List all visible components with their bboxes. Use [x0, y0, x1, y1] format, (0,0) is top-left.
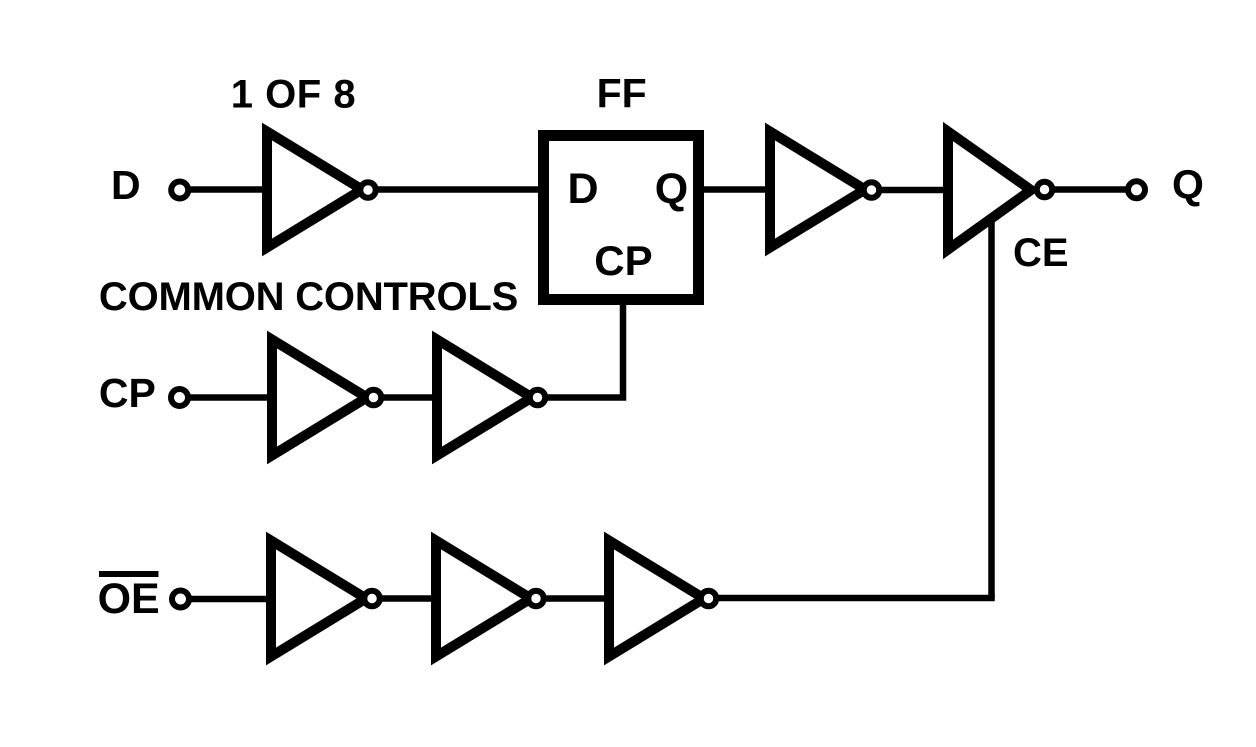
bubble at U4 output — [366, 390, 382, 406]
svg-text:COMMON CONTROLS: COMMON CONTROLS — [99, 275, 518, 319]
wire buffer U4 output to buffer U5 — [374, 394, 443, 401]
wire buffer U1 output to FF D pin — [368, 186, 546, 193]
wire U3 output to Q terminal — [1053, 186, 1128, 193]
wire buffer U7 output to buffer U8 — [536, 595, 614, 602]
svg-text:Q: Q — [655, 165, 688, 213]
buffer U5 (CP buffer 2) — [437, 340, 532, 456]
svg-text:CP: CP — [594, 237, 652, 284]
buffer U6 (OE buffer 1) — [271, 541, 366, 657]
wire buffer U2 output to output buffer U3 — [872, 187, 951, 194]
wire OE net from U8 to CE vertical — [709, 595, 995, 602]
svg-text:OE: OE — [98, 575, 160, 623]
bubble at U5 output — [530, 390, 546, 406]
buffer U1 (D input buffer, 1 of 8) — [267, 132, 362, 248]
wire CP net vertical into FF — [538, 302, 624, 398]
svg-text:D: D — [568, 165, 599, 213]
terminal OE — [172, 591, 189, 608]
bubble at U8 output — [701, 591, 717, 607]
svg-text:D: D — [111, 162, 141, 208]
wire buffer U6 output to buffer U7 — [372, 595, 441, 602]
svg-text:1 OF 8: 1 OF 8 — [231, 73, 356, 117]
buffer U4 (CP buffer 1) — [272, 340, 367, 456]
buffer U2 (Q path buffer) — [770, 132, 865, 248]
svg-text:FF: FF — [597, 71, 647, 117]
wire FF Q output to buffer U2 — [696, 186, 775, 193]
svg-text:CP: CP — [99, 370, 156, 416]
bubble at U1 output — [360, 182, 376, 198]
overline bar over OE — [99, 571, 159, 577]
svg-text:CE: CE — [1013, 231, 1069, 275]
svg-text:Q: Q — [1172, 162, 1204, 208]
bubble at U2 output — [864, 182, 880, 198]
bubble at U6 output — [364, 591, 380, 607]
buffer U7 (OE buffer 2) — [436, 541, 531, 657]
terminal D — [171, 182, 188, 199]
wire CE net vertical from U3 down to OE net — [988, 212, 995, 598]
buffer U8 (OE buffer 3) — [609, 541, 704, 657]
wire D terminal to buffer U1 — [180, 186, 268, 193]
bubble at U7 output — [528, 591, 544, 607]
terminal CP — [171, 389, 188, 406]
terminal Q — [1128, 181, 1145, 198]
three-state output buffer U3 — [948, 132, 1031, 250]
flip-flop FF box — [544, 136, 699, 300]
bubble at U3 output — [1037, 182, 1053, 198]
wire OE terminal to buffer U6 — [181, 596, 276, 603]
wire CP terminal to buffer U4 — [180, 394, 277, 401]
